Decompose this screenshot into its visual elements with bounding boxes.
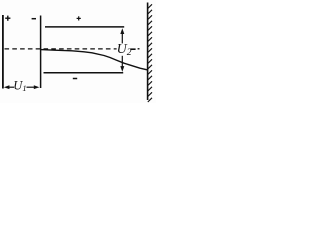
deflection plate bottom (horizontal) bbox=[44, 72, 124, 74]
screen wall (vertical line) bbox=[147, 3, 149, 101]
minus label on right plate bbox=[32, 18, 36, 20]
beam trajectory curve bbox=[41, 50, 148, 70]
plus label above top plate bbox=[77, 16, 81, 20]
U2 dimension arrow up (to top plate) bbox=[120, 28, 124, 43]
deflection plate top (horizontal) bbox=[45, 26, 124, 28]
U2 dimension arrow down (to bottom plate) bbox=[120, 56, 124, 72]
U1 dimension arrow right bbox=[27, 85, 40, 89]
plus label on left plate bbox=[5, 16, 10, 21]
wall hatching bbox=[148, 4, 152, 102]
U1 dimension arrow left bbox=[4, 85, 14, 89]
minus label below bottom plate bbox=[73, 78, 77, 80]
dashed beam axis (right of U2 label) bbox=[130, 48, 135, 50]
capacitor plate left (vertical) bbox=[2, 15, 4, 89]
capacitor plate right (vertical) bbox=[40, 16, 42, 89]
dashed beam axis (left of U2 label) bbox=[5, 48, 117, 50]
